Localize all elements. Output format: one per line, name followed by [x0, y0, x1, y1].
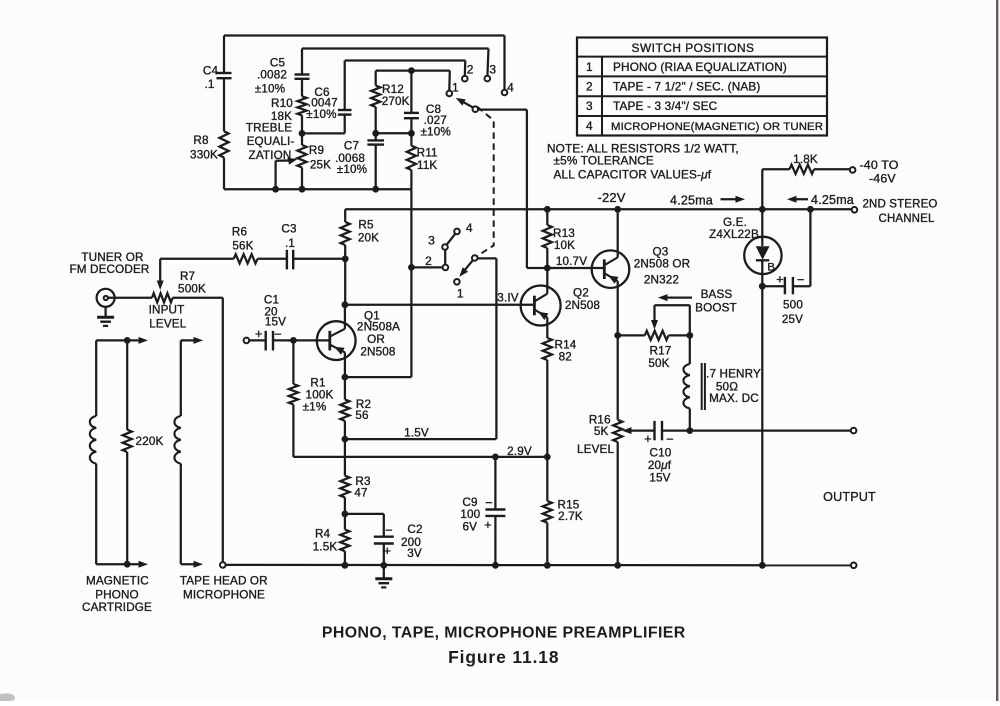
node diode column on output rail — [759, 562, 766, 569]
svg-text:Z4XL22B: Z4XL22B — [709, 228, 759, 241]
svg-text:LEVEL: LEVEL — [149, 318, 186, 331]
wire Q2 emitter to R14 — [546, 317, 548, 338]
wire treble bottom rail — [224, 188, 411, 190]
label R16 — [577, 414, 614, 456]
wire Q2 collector up — [546, 268, 548, 294]
resistor R3 — [340, 439, 349, 514]
svg-text:4.25ma: 4.25ma — [811, 193, 854, 207]
svg-text:2N322: 2N322 — [644, 274, 679, 287]
svg-text:2.9V: 2.9V — [507, 445, 532, 458]
transistor Q2 — [521, 286, 561, 326]
svg-text:MICROPHONE(MAGNETIC) OR TUNER: MICROPHONE(MAGNETIC) OR TUNER — [611, 121, 823, 133]
node C9 on output rail — [492, 562, 499, 569]
svg-text:−: − — [797, 272, 805, 287]
svg-text:-22V: -22V — [597, 190, 625, 205]
label C2 — [401, 523, 423, 560]
svg-text:6V: 6V — [462, 521, 477, 534]
label Q1 — [357, 310, 400, 359]
label R13 — [553, 227, 575, 252]
svg-text:±1%: ±1% — [303, 401, 327, 414]
table row 2 — [586, 80, 761, 94]
svg-text:4: 4 — [507, 81, 514, 95]
svg-text:R6: R6 — [232, 226, 247, 239]
wire tape head bottom arrow — [181, 561, 203, 568]
scan blob bottom-left — [0, 693, 15, 701]
svg-text:TREBLE: TREBLE — [246, 122, 292, 135]
wire feedback column down to Q1 emitter — [345, 189, 412, 377]
table row 3 — [586, 99, 718, 113]
svg-text:R5: R5 — [358, 219, 374, 232]
svg-text:OR: OR — [367, 333, 385, 346]
wire output bottom rail — [226, 564, 851, 567]
svg-text:.1: .1 — [285, 237, 295, 250]
wire phono top arrow — [96, 337, 148, 344]
node 1.8K on rail — [759, 206, 766, 213]
svg-text:TAPE HEAD OR: TAPE HEAD OR — [180, 575, 268, 588]
resistor 1.8K — [762, 165, 850, 174]
table title — [632, 41, 755, 55]
svg-text:2N508: 2N508 — [360, 346, 395, 359]
label 4.25ma right — [670, 194, 713, 208]
svg-text:BASS: BASS — [701, 288, 733, 301]
label Q2 — [565, 287, 600, 312]
svg-text:TAPE - 3 3/4"/ SEC: TAPE - 3 3/4"/ SEC — [613, 99, 718, 113]
svg-text:ALL CAPACITOR VALUES-μf: ALL CAPACITOR VALUES-μf — [554, 167, 712, 181]
svg-text:1: 1 — [452, 80, 459, 94]
svg-text:2: 2 — [586, 80, 593, 94]
switch S1 contact 2 — [462, 76, 468, 82]
label C2 minus — [385, 523, 393, 538]
svg-text:MAGNETIC: MAGNETIC — [86, 575, 149, 588]
wire Q3 collector to rail — [617, 209, 619, 257]
svg-text:OUTPUT: OUTPUT — [823, 490, 876, 504]
svg-text:R11: R11 — [417, 147, 438, 160]
label C1 minus — [274, 327, 282, 342]
label C9 — [460, 496, 480, 534]
inductor core bars — [702, 363, 705, 410]
wiper R17 — [651, 305, 690, 335]
label 3.1V — [497, 292, 518, 305]
resistor R4 — [340, 514, 349, 565]
node R10/R9/C6 junction — [299, 130, 306, 137]
node Q3 emitter / R17 junction — [614, 332, 621, 339]
svg-text:25V: 25V — [782, 313, 803, 326]
node R2/R3 junction — [342, 436, 349, 443]
arrow 4.25ma right — [721, 196, 746, 203]
node C8/R11 junction — [408, 130, 415, 137]
node R13 top on rail — [544, 206, 551, 213]
node Q3 base junction — [544, 265, 551, 272]
wire Q3 base — [547, 267, 604, 269]
svg-text:.7 HENRY: .7 HENRY — [706, 368, 761, 381]
label R5 — [358, 219, 379, 245]
svg-text:5K: 5K — [594, 425, 609, 438]
note text — [547, 141, 739, 181]
wire R3 node to C2 — [345, 514, 384, 537]
svg-text:C10: C10 — [650, 447, 672, 460]
label R12 — [382, 83, 410, 108]
label C3 — [281, 223, 296, 251]
switch S1 contact 4 — [502, 90, 508, 96]
capacitor C5 — [295, 49, 310, 97]
wire phono bottom arrow — [96, 561, 148, 568]
wire 2.9V line — [293, 456, 547, 458]
svg-text:R14: R14 — [555, 339, 577, 352]
label S1-4 — [507, 81, 514, 95]
label C1 plus — [255, 327, 263, 341]
label 1.8K — [793, 153, 818, 166]
wiper R16 / capacitor C10 — [622, 421, 690, 440]
svg-text:2.7K: 2.7K — [558, 510, 583, 523]
label C5 — [255, 57, 287, 96]
wire Q1 collector leg — [344, 305, 346, 329]
inductor phono cartridge — [90, 340, 96, 564]
switch S2 arm — [459, 260, 473, 277]
switch S2 contact 3 — [442, 244, 448, 250]
label 10.7V — [556, 255, 587, 268]
label R8 — [190, 134, 218, 162]
label C10 — [648, 447, 672, 485]
switch S1 contact 3 — [485, 76, 491, 82]
label R4 — [313, 527, 338, 553]
svg-text:1.8K: 1.8K — [793, 153, 818, 166]
svg-text:B: B — [767, 262, 775, 274]
resistor R6 — [160, 254, 287, 263]
input jack J1 — [97, 289, 115, 307]
node diode/cap junction — [759, 283, 766, 290]
ground at jack — [97, 307, 114, 326]
wire R5 node to Q1 collector — [344, 259, 346, 305]
resistor R14 — [543, 338, 552, 457]
label S2-4 — [466, 221, 473, 235]
label C2 plus — [384, 544, 392, 558]
svg-text:C9: C9 — [462, 496, 477, 509]
svg-text:R10: R10 — [271, 97, 293, 110]
svg-text:C2: C2 — [407, 523, 422, 536]
switch positions table frame — [577, 38, 827, 136]
svg-text:10K: 10K — [554, 239, 575, 252]
svg-text:15V: 15V — [649, 471, 670, 484]
label C8 — [420, 103, 450, 139]
resistor R13 — [543, 209, 552, 268]
svg-text:TAPE - 7 1/2" / SEC. (NAB): TAPE - 7 1/2" / SEC. (NAB) — [613, 80, 761, 94]
svg-text:2N508A: 2N508A — [357, 321, 400, 334]
label 220K — [136, 435, 164, 448]
svg-text:±10%: ±10% — [420, 126, 450, 139]
svg-text:LEVEL: LEVEL — [577, 443, 614, 456]
svg-text:+: + — [484, 518, 492, 532]
svg-text:10.7V: 10.7V — [556, 255, 587, 268]
wire S2 contact3 to contact2 — [444, 250, 446, 265]
node 500 cap on rail — [807, 206, 814, 213]
capacitor C1 — [249, 331, 330, 351]
resistor R2 — [340, 377, 349, 439]
svg-text:1.5V: 1.5V — [404, 427, 429, 440]
svg-text:R7: R7 — [180, 270, 195, 283]
svg-text:.0082: .0082 — [257, 69, 287, 82]
label C7 — [335, 140, 367, 177]
label R10 — [271, 97, 293, 123]
label C9 plus — [484, 518, 492, 532]
label MAGNETIC PHONO CARTRIDGE — [82, 575, 152, 614]
inductor L1 .7 henry — [683, 335, 689, 430]
svg-text:11K: 11K — [417, 159, 437, 172]
title caption — [322, 625, 686, 642]
svg-text:50K: 50K — [648, 357, 669, 370]
node C7 bottom on rail — [372, 186, 379, 193]
svg-text:PHONO, TAPE, MICROPHONE PRE: PHONO, TAPE, MICROPHONE PREAMPLIFIER — [322, 625, 686, 642]
svg-text:−: − — [485, 495, 493, 510]
svg-text:C4: C4 — [203, 65, 219, 78]
svg-text:±10%: ±10% — [337, 163, 367, 176]
resistor R15 — [543, 457, 552, 565]
capacitor C7 — [367, 133, 384, 189]
potentiometer R9 — [297, 133, 306, 189]
label G.E. Z4XL22B — [709, 216, 759, 241]
wire C6 top to switch contact 2 feed — [345, 61, 466, 77]
node R3/R4/C2 junction — [342, 511, 349, 518]
wire R12 bottom to C8 node — [376, 132, 412, 134]
wire R16 column — [617, 335, 619, 419]
svg-text:−: − — [385, 523, 393, 538]
terminal tape head — [220, 562, 226, 568]
wiper of R9 — [276, 158, 298, 189]
label 2.9V — [507, 445, 532, 458]
label TREBLE EQUALIZATION — [246, 122, 295, 162]
svg-text:C7: C7 — [344, 140, 359, 153]
svg-text:CHANNEL: CHANNEL — [879, 213, 935, 225]
label R7 — [178, 270, 206, 296]
capacitor C8 — [404, 71, 419, 134]
svg-text:±5% TOLERANCE: ±5% TOLERANCE — [554, 154, 654, 168]
svg-text:FM DECODER: FM DECODER — [69, 263, 149, 276]
node 2.9V / Q2 emitter junction — [544, 454, 551, 461]
node R15 on output rail — [544, 562, 551, 569]
wire -22V rail to 1.8K — [761, 169, 763, 209]
label .7 HENRY 50ohm MAX DC — [706, 368, 761, 405]
svg-text:3.IV: 3.IV — [497, 292, 518, 305]
node inductor/C10 junction — [686, 427, 693, 434]
switch S1 arm — [456, 98, 474, 108]
svg-text:MICROPHONE: MICROPHONE — [183, 588, 265, 601]
svg-text:82: 82 — [559, 351, 572, 364]
label TUNER OR FM DECODER — [69, 251, 149, 276]
svg-text:.1: .1 — [204, 78, 214, 91]
terminal -40 to -46V — [850, 167, 856, 173]
label R9 — [309, 144, 331, 172]
arrow 4.25ma left — [787, 196, 808, 203]
svg-text:3: 3 — [428, 234, 435, 248]
wire 1.5V line — [345, 438, 497, 440]
label TAPE HEAD OR MICROPHONE — [180, 575, 268, 602]
node R5/C3 junction — [342, 255, 349, 262]
svg-text:BOOST: BOOST — [695, 301, 737, 314]
svg-text:2: 2 — [467, 63, 474, 77]
wire Q1 collector to Q2 base — [345, 304, 535, 306]
svg-text:+: + — [255, 327, 263, 341]
node Q1 base / R1 junction — [290, 337, 297, 344]
label 1.5V — [404, 427, 429, 440]
table row 1 — [586, 60, 787, 74]
svg-text:R4: R4 — [315, 527, 331, 540]
svg-text:2: 2 — [425, 254, 432, 268]
table row 4 — [586, 119, 823, 133]
terminal output top — [851, 428, 857, 434]
wire R7 to tape-head terminal — [222, 298, 224, 562]
inductor tape head — [174, 340, 180, 564]
switch S2 contact 2 — [443, 265, 449, 271]
resistor R8 — [219, 131, 228, 189]
resistor 220K — [123, 340, 132, 564]
resistor R11 — [407, 133, 416, 189]
capacitor C3 — [287, 250, 345, 270]
label S2-2 — [425, 254, 432, 268]
label OUTPUT — [823, 490, 876, 504]
wire Q3 emitter down — [617, 281, 619, 335]
wire rail to diode — [761, 209, 763, 246]
svg-text:CARTRIDGE: CARTRIDGE — [82, 601, 152, 614]
label 2ND STEREO CHANNEL — [863, 199, 938, 225]
svg-text:SWITCH POSITIONS: SWITCH POSITIONS — [632, 41, 755, 55]
label C4 — [203, 65, 219, 92]
label R2 — [355, 398, 371, 422]
label S2-1 — [457, 286, 464, 300]
label R14 — [555, 339, 577, 364]
svg-text:20K: 20K — [358, 232, 379, 245]
switch S1 contact 1 — [447, 91, 453, 97]
label C1 — [264, 294, 286, 329]
label 500 25V — [782, 299, 803, 327]
label S2-3 — [428, 234, 435, 248]
label R11 — [417, 147, 438, 172]
node junction on contact-1 feed wire — [408, 67, 415, 74]
ground at C2 — [375, 565, 392, 587]
label B — [767, 262, 775, 274]
svg-text:2ND STEREO: 2ND STEREO — [863, 199, 938, 211]
wire R12/C8 top to switch contact 1 feed — [376, 71, 450, 91]
node 220K top — [124, 337, 131, 344]
label R17 — [648, 345, 671, 370]
node Q1 emitter junction — [342, 374, 349, 381]
svg-text:330K: 330K — [190, 149, 218, 162]
svg-text:-46V: -46V — [869, 172, 896, 186]
svg-text:25K: 25K — [310, 159, 331, 172]
svg-text:R9: R9 — [309, 144, 324, 157]
wire C4 top to switch contact 4 feed — [224, 36, 505, 90]
wire S1 pivot to feedback node — [478, 110, 547, 268]
svg-text:TUNER OR: TUNER OR — [81, 251, 143, 264]
label BASS BOOST — [695, 288, 737, 314]
node R9 bottom on rail — [299, 186, 306, 193]
svg-text:270K: 270K — [382, 95, 410, 108]
label S1-2 — [467, 63, 474, 77]
svg-text:Q2: Q2 — [573, 287, 589, 300]
label 4.25ma left — [811, 193, 854, 207]
svg-text:Figure 11.18: Figure 11.18 — [448, 647, 559, 667]
svg-text:INPUT: INPUT — [149, 304, 185, 317]
svg-text:±10%: ±10% — [306, 108, 336, 121]
node Q1 collector junction — [342, 301, 349, 308]
wire S2 pivot to 1.5V line — [477, 258, 496, 439]
label C10 minus — [666, 431, 674, 446]
switch S2 contact 1 — [454, 279, 460, 285]
label 500 25V plus — [776, 273, 784, 287]
capacitor C6 — [302, 61, 352, 134]
figure number — [448, 647, 559, 667]
svg-text:PHONO: PHONO — [95, 588, 139, 601]
transistor Q3 — [592, 250, 630, 288]
svg-text:−: − — [666, 431, 674, 446]
resistor R1 — [289, 340, 298, 457]
node R17/inductor junction — [686, 332, 693, 339]
svg-text:20μf: 20μf — [648, 459, 672, 472]
svg-text:1: 1 — [457, 286, 464, 300]
diode U1 G.E. Z4XL22B — [744, 237, 781, 287]
svg-text:PHONO (RIAA EQUALIZATION): PHONO (RIAA EQUALIZATION) — [613, 60, 787, 74]
node R9 wiper on rail — [272, 186, 279, 193]
wire diode column to output rail — [761, 286, 763, 565]
label R6 — [232, 226, 254, 253]
svg-text:R8: R8 — [193, 134, 208, 147]
potentiometer R17 — [618, 331, 690, 340]
node Q3 collector on rail — [614, 206, 621, 213]
svg-text:47: 47 — [354, 486, 367, 499]
label INPUT LEVEL — [149, 304, 187, 331]
svg-text:3: 3 — [586, 99, 593, 113]
label 500 25V minus — [797, 272, 805, 287]
capacitor C4 — [217, 36, 232, 132]
svg-text:2N508: 2N508 — [565, 299, 600, 312]
transistor Q1 — [317, 321, 356, 360]
resistor R5 — [341, 209, 350, 258]
label S1-1 — [452, 80, 459, 94]
label S1-3 — [489, 63, 496, 77]
capacitor C9 — [485, 457, 505, 565]
capacitor C2 — [374, 537, 394, 566]
switch S2 contact 4 — [454, 229, 460, 235]
svg-text:4.25ma: 4.25ma — [670, 194, 713, 208]
svg-text:56K: 56K — [232, 240, 253, 253]
potentiometer R16 — [613, 420, 622, 566]
dashed gang link — [477, 107, 494, 256]
resistor R10 — [297, 96, 306, 133]
svg-text:+: + — [776, 273, 784, 287]
label Q3 — [634, 246, 690, 287]
node R4 on output rail — [342, 562, 349, 569]
svg-text:ZATION: ZATION — [249, 149, 292, 162]
svg-text:100: 100 — [460, 508, 480, 521]
label C10 plus — [644, 432, 652, 446]
svg-text:MAX. DC: MAX. DC — [709, 392, 759, 405]
label R1 — [303, 377, 334, 414]
svg-text:-40 TO: -40 TO — [860, 158, 899, 172]
label C9 minus — [485, 495, 493, 510]
svg-text:R17: R17 — [650, 345, 672, 358]
svg-text:C3: C3 — [281, 223, 296, 236]
svg-text:EQUALI-: EQUALI- — [247, 135, 295, 148]
wire S2 contact2 to feedback column — [411, 266, 442, 268]
terminal C1 input — [244, 338, 250, 344]
wire Q1 emitter leg — [344, 352, 346, 377]
node 2.9V / C9 junction — [492, 454, 499, 461]
capacitor 500 25V — [762, 209, 810, 294]
svg-text:−: − — [274, 327, 282, 342]
label -22V — [597, 190, 625, 205]
switch S1 pivot — [473, 106, 479, 112]
svg-text:220K: 220K — [136, 435, 164, 448]
svg-text:1: 1 — [586, 60, 593, 74]
terminal 2nd stereo channel — [852, 207, 858, 213]
